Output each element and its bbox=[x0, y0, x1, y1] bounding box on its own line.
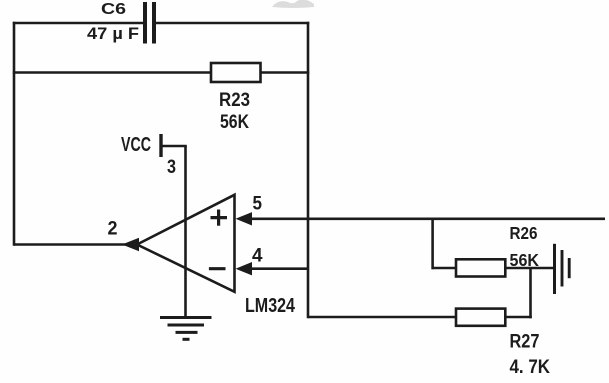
wire: R26 right lead to ground bbox=[505, 267, 554, 270]
op-amp plus input marking bbox=[211, 210, 228, 226]
wire: top horizontal right of C6 bbox=[156, 22, 309, 25]
ground symbol right (rotated) bbox=[555, 244, 570, 294]
resistor R23 bbox=[211, 63, 261, 82]
wire: pin 3 vertical through op-amp to ground bbox=[184, 146, 187, 318]
svg-text:C6: C6 bbox=[101, 1, 126, 18]
wire: output (pin 2) horizontal bbox=[14, 243, 126, 246]
ground symbol below op-amp bbox=[160, 318, 212, 340]
svg-text:47 µ F: 47 µ F bbox=[87, 24, 139, 43]
wire: R23 row right segment bbox=[261, 71, 310, 74]
svg-text:4. 7K: 4. 7K bbox=[510, 356, 551, 378]
watermark smudge bbox=[272, 0, 314, 8]
wire: VCC to pin 3 bbox=[161, 145, 187, 148]
wire: pin 5 input long horizontal bbox=[251, 218, 606, 221]
wire: junction vertical between R26 and R27 bbox=[529, 268, 532, 318]
output arrowhead at op-amp bbox=[122, 238, 139, 251]
wire: pin 4 input horizontal to right rail bbox=[251, 267, 309, 270]
svg-text:VCC: VCC bbox=[121, 134, 151, 156]
pin 4 arrowhead into - input bbox=[236, 262, 253, 275]
wire: R26 left lead bbox=[433, 267, 456, 270]
wire: right vertical rail bbox=[307, 22, 310, 319]
svg-text:R23: R23 bbox=[219, 90, 250, 111]
svg-text:R27: R27 bbox=[510, 332, 540, 353]
pin 5 arrowhead into + input bbox=[236, 212, 253, 225]
svg-text:3: 3 bbox=[167, 157, 176, 178]
wire: R23 row left segment bbox=[13, 71, 211, 74]
resistor R26 bbox=[456, 259, 505, 276]
wire: junction drop from pin5 line to R26 bbox=[431, 219, 434, 269]
node VCC terminal bbox=[159, 134, 162, 157]
wire: R27 right lead bbox=[505, 316, 532, 319]
svg-text:56K: 56K bbox=[510, 250, 540, 270]
svg-text:R26: R26 bbox=[510, 223, 538, 243]
svg-text:5: 5 bbox=[253, 193, 263, 215]
wire: R27 left lead from right rail bbox=[308, 316, 456, 319]
wire: left vertical rail bbox=[13, 22, 16, 246]
capacitor C6 bbox=[143, 2, 156, 44]
op-amp minus input marking bbox=[209, 267, 226, 270]
svg-text:4: 4 bbox=[252, 244, 263, 266]
resistor R27 bbox=[456, 309, 505, 326]
op-amp U1 LM324 triangle bbox=[137, 195, 235, 292]
svg-text:2: 2 bbox=[108, 218, 118, 240]
wire: top horizontal left of C6 bbox=[13, 22, 145, 25]
svg-text:LM324: LM324 bbox=[245, 294, 295, 317]
svg-text:56K: 56K bbox=[220, 112, 249, 133]
